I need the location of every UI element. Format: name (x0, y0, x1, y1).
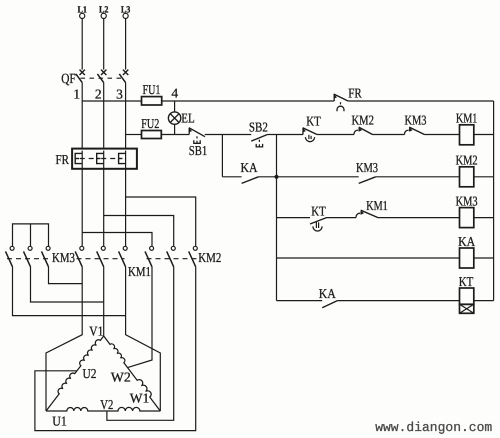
wire phase 3 QF to FR (125, 83, 127, 149)
wire rowA right (348, 100, 494, 102)
label KM3 (power) (52, 250, 75, 265)
label SB1 (189, 143, 208, 158)
coil KM3 (460, 208, 474, 228)
wire rowB FU2 to SB1 (161, 134, 189, 136)
node 3 (116, 87, 123, 102)
svg-text:FR: FR (56, 152, 70, 167)
svg-text:KT: KT (311, 204, 326, 219)
svg-text:KM1: KM1 (128, 264, 151, 279)
thermal relay FR box (72, 149, 137, 169)
label V2 (100, 397, 113, 412)
wire KA coil to rail (474, 257, 494, 259)
svg-text:V1: V1 (89, 323, 103, 338)
label KA (rowC) (241, 160, 258, 175)
right rail (493, 101, 495, 301)
wire L3 drop (103, 19, 105, 70)
wire rowD right (378, 217, 460, 219)
wire node4 to lamp (174, 101, 176, 112)
label W2 (111, 370, 131, 385)
contact KM3 pole 2 (24, 246, 33, 266)
svg-text:KA: KA (241, 160, 258, 175)
watermark www.diangon.com (375, 420, 492, 435)
wire phase 2 FR to KM1 (103, 151, 105, 247)
fuse FU2 (141, 116, 161, 138)
node 1 (73, 87, 80, 102)
wire phase 1 FR to KM1 (81, 151, 83, 247)
wire rowD left (277, 217, 311, 219)
svg-text:1: 1 (73, 87, 80, 102)
wire rowB SB2 to KT (267, 134, 303, 136)
wire rowB from L3 (126, 134, 142, 136)
wire lamp to rowB (174, 124, 176, 134)
coil KM1 (460, 125, 474, 145)
node 2 (95, 87, 102, 102)
KM3 star bar (13, 224, 49, 246)
contact KM3 pole 1 (6, 246, 15, 266)
label SB2 (249, 119, 268, 134)
contact KT (delay) (302, 128, 317, 142)
wire rowE (277, 257, 460, 259)
contact KT (rowD, delay NO) (310, 218, 327, 231)
breaker QF pole 3 (119, 70, 128, 83)
wire rowA mid (162, 100, 335, 102)
svg-text:KT: KT (459, 274, 474, 289)
wire KM3 pole1 to phase3 (13, 267, 126, 316)
svg-text:KT: KT (306, 113, 321, 128)
coil KM2 (460, 167, 474, 187)
wire tap phase to KM2 at y=197.0 (126, 197, 196, 246)
wire KM3 pole3 to phase1 (49, 267, 83, 284)
label W1 (130, 390, 150, 405)
pushbutton SB2 (NO) (251, 135, 267, 147)
wire tap phase to KM2 at y=232.5 (82, 233, 152, 247)
contact KM1 (rowD) (356, 210, 378, 217)
wire phase2 to V1 apex (103, 267, 105, 336)
wire junction drop to rowC (221, 135, 223, 177)
label KM1 (rowD) (366, 198, 388, 213)
label KT (rowB) (306, 113, 321, 128)
label KM2 (power) (198, 250, 221, 265)
contact KM1 pole 3 (119, 246, 128, 266)
QF linkage (81, 77, 123, 79)
KM2 linkage (147, 258, 199, 260)
svg-text:W2: W2 (111, 370, 131, 385)
svg-text:2: 2 (95, 87, 102, 102)
contact KM1 pole 2 (97, 246, 106, 266)
label KT (coil) (459, 274, 474, 289)
winding U (left side) (46, 336, 104, 411)
winding V (bottom side) (46, 407, 160, 411)
label FR (box) (56, 152, 70, 167)
svg-text:SB1: SB1 (189, 143, 208, 158)
wire rowB KM2 to KM3 (373, 134, 405, 136)
wire KM3 pole2 to phase2 (31, 267, 104, 302)
label KT (rowD) (311, 204, 326, 219)
svg-text:KM3: KM3 (456, 194, 478, 209)
svg-text:KA: KA (319, 286, 336, 301)
svg-text:U2: U2 (83, 366, 97, 381)
supply terminal L3 (121, 5, 131, 18)
wire rowC mid (259, 176, 359, 178)
contact KM2 (NC) (354, 127, 373, 134)
wire phase3 to W1 (126, 267, 161, 411)
wire KM1 coil to rail (474, 134, 494, 136)
wire rowD mid (327, 217, 357, 219)
svg-text:FU2: FU2 (141, 116, 159, 131)
label EL (181, 110, 195, 125)
label KM2 (rowB) (351, 113, 374, 128)
svg-text:QF: QF (61, 72, 76, 87)
label QF (61, 72, 76, 87)
contact KM2 pole 2 (167, 246, 176, 266)
svg-text:KM1: KM1 (366, 198, 388, 213)
wire KM2 pole2 to V2 (107, 267, 174, 421)
svg-text:KM3: KM3 (405, 113, 427, 128)
KM1 linkage (77, 258, 125, 260)
wire KM2 pole1 to W2 (128, 267, 152, 368)
contact KA (rowF, NO) (322, 301, 337, 308)
contact KM1 pole 1 (75, 246, 84, 266)
contact FR (NC, thermal) (334, 94, 349, 111)
contact KM3 pole 3 (42, 246, 51, 266)
supply terminal L1 (77, 5, 87, 18)
label KM3 (rowC) (356, 160, 378, 175)
svg-text:www.diangon.com: www.diangon.com (375, 420, 492, 435)
wire rowC left (222, 176, 241, 178)
wire rowA left (82, 100, 141, 102)
contact KM3 (NC) (405, 127, 425, 134)
contact KM2 pole 3 (189, 246, 198, 266)
svg-text:4: 4 (171, 86, 178, 101)
svg-text:KA: KA (458, 234, 475, 249)
svg-text:KM3: KM3 (356, 160, 378, 175)
svg-text:EL: EL (181, 110, 195, 125)
svg-text:KM2: KM2 (456, 153, 478, 168)
wire rowC right (376, 176, 460, 178)
wire rowB KM3 to coil (424, 134, 459, 136)
KM3 linkage (7, 258, 51, 260)
fuse FU1 (142, 82, 162, 105)
label FR (contact) (348, 86, 362, 101)
wire rowF left (277, 300, 323, 302)
wire phase 2 QF to FR (103, 83, 105, 149)
label KM1 (power) (128, 264, 151, 279)
wire phase 3 FR to KM1 (125, 151, 127, 247)
node 4 (171, 86, 178, 101)
svg-text:FU1: FU1 (143, 82, 161, 97)
FR heater elements (75, 153, 125, 163)
wire rowF right (337, 300, 459, 302)
contact KM2 pole 1 (145, 246, 154, 266)
winding W (right side) (104, 336, 161, 411)
label V1 (89, 323, 103, 338)
contact KA (rowC, NO) (242, 177, 259, 184)
label KA (rowF) (319, 286, 336, 301)
svg-text:KM1: KM1 (456, 111, 478, 126)
wire rowB SB1 to SB2 (205, 134, 251, 136)
svg-text:3: 3 (116, 87, 123, 102)
svg-text:SB2: SB2 (249, 119, 268, 134)
svg-text:KM2: KM2 (198, 250, 221, 265)
pushbutton SB1 (NC) (189, 128, 205, 144)
wire KM2 pole3 to U2 (35, 267, 196, 431)
svg-text:U1: U1 (52, 413, 67, 428)
label KA (coil) (458, 234, 475, 249)
breaker QF pole 2 (97, 70, 106, 83)
svg-text:FR: FR (348, 86, 362, 101)
wire KM2 coil to rail (474, 176, 494, 178)
wire phase 1 QF to FR (81, 83, 83, 149)
wire L3 drop (81, 19, 83, 70)
label KM2 (coil) (456, 153, 478, 168)
lamp EL (168, 112, 180, 124)
left rail (276, 135, 278, 301)
wire KT coil to rail (474, 300, 494, 302)
wire rowB KT to KM2 (317, 134, 354, 136)
contact KM3 (rowC, NO) (359, 177, 376, 184)
label KM3 (coil) (456, 194, 478, 209)
label U2 (83, 366, 97, 381)
svg-text:KM3: KM3 (52, 250, 75, 265)
coil KA (460, 248, 474, 268)
svg-text:KM2: KM2 (351, 113, 374, 128)
label U1 (52, 413, 67, 428)
wire L3 drop (125, 19, 127, 70)
svg-text:V2: V2 (100, 397, 113, 412)
wire tap phase to KM2 at y=215.5 (104, 216, 174, 247)
wire KM3 coil to rail (474, 217, 494, 219)
FR linkage dashes (80, 158, 118, 160)
junction dot (274, 175, 278, 179)
breaker QF pole 1 (76, 70, 85, 83)
svg-text:W1: W1 (130, 390, 150, 405)
supply terminal L2 (99, 5, 109, 18)
wire phase1 to U1 (46, 267, 82, 411)
coil KT (time relay) (460, 288, 474, 313)
label KM3 (rowB) (405, 113, 427, 128)
label KM1 (coil) (456, 111, 478, 126)
